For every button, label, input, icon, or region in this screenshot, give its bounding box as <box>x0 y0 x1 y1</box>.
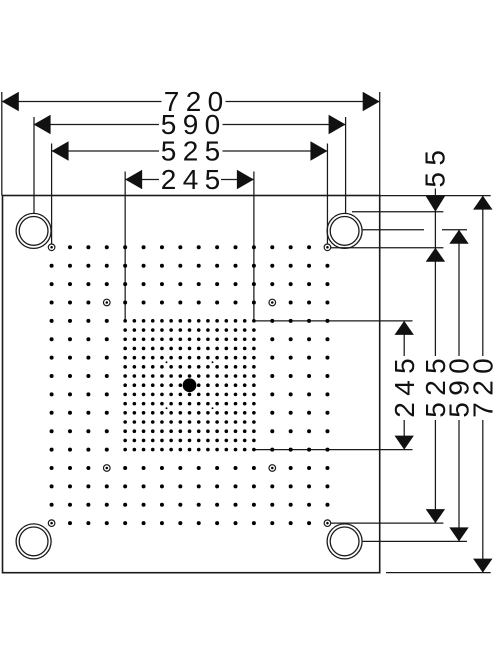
svg-text:720: 720 <box>467 352 496 418</box>
svg-text:245: 245 <box>161 164 227 195</box>
svg-text:55: 55 <box>420 144 451 188</box>
svg-text:525: 525 <box>161 136 227 167</box>
svg-text:245: 245 <box>389 352 420 418</box>
